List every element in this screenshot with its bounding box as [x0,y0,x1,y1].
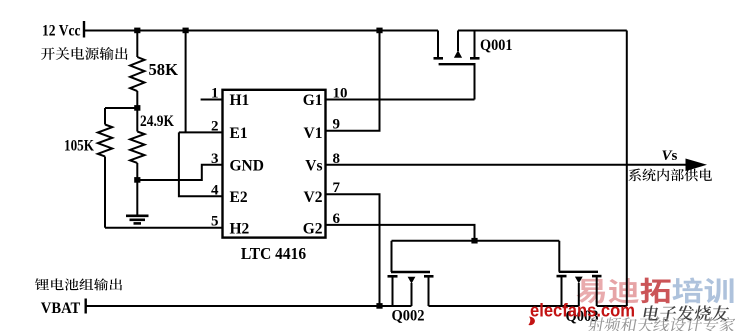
svg-text:1: 1 [211,86,219,102]
wire 12Vcc top rail [84,30,438,32]
svg-text:2: 2 [211,118,219,134]
wire pin1 H1 stub [201,99,223,101]
ground [126,180,149,223]
watermark 电子发烧友 [643,305,730,321]
svg-text:12 Vcc: 12 Vcc [42,23,81,40]
wire node A to 105K top [105,107,137,109]
transistor Q1 (Q001 P-MOSFET) [434,31,480,65]
wire Q002 drain to Q003 [429,305,579,307]
wire E2: tied to E1, down to pin4 [179,132,223,196]
watermark red mark [528,317,535,326]
wire Vs vertical (Q001 drain to battery switch output) [626,31,628,307]
svg-text:G1: G1 [303,92,323,109]
junction on rail at V1 drop [376,28,382,34]
svg-text:E1: E1 [230,125,248,142]
svg-text:V2: V2 [304,189,323,206]
svg-text:58K: 58K [149,60,179,79]
junction on rail at E1 drop [183,28,189,34]
watermark 射频和天线设计专家 [587,317,735,331]
svg-text:105K: 105K [64,137,94,154]
wire E1: rail to pin2 [185,31,187,133]
svg-text:V1: V1 [304,125,323,142]
svg-text:G2: G2 [303,220,323,237]
junction dot G2 on gate rail [471,238,477,244]
wire Vs pin8 output line [326,164,697,166]
wire H2 rail: 105K bottom to pin5 [105,227,223,229]
junction on rail at 58K [134,28,140,34]
wire Q003 drain to Vs vertical [597,305,627,307]
op-amp U1 LTC4416 body [223,90,326,238]
node A junction dot [134,105,140,111]
svg-text:VBAT: VBAT [41,300,81,317]
resistor R1 58K [130,31,144,109]
svg-text:4: 4 [211,182,219,198]
svg-text:Q001: Q001 [480,37,513,54]
svg-text:GND: GND [230,157,264,174]
label: system internal supply (系统内部供电) [629,168,712,181]
Vs output arrowhead [686,159,708,172]
wire G1 pin10 to Q001 gate [326,99,475,101]
svg-text:3: 3 [211,151,219,167]
wire V1 pin9 to rail [326,31,380,131]
wire VBAT rail [86,305,412,307]
svg-text:Vs: Vs [305,157,322,174]
svg-text:H1: H1 [230,92,250,109]
svg-text:LTC 4416: LTC 4416 [241,244,306,263]
wire Q001 gate drop [474,64,476,99]
wire node B to pin3 GND (jog) [137,165,222,180]
wire Q001 drain rail [458,30,627,32]
junction dot V2 on VBAT rail [376,303,382,309]
resistor R3 105K [98,108,112,228]
label: lithium battery pack output (锂电池组输出) [35,278,122,290]
resistor R2 24.9K [130,108,144,180]
svg-text:elecfans.com: elecfans.com [530,300,635,321]
svg-text:5: 5 [211,214,219,230]
svg-text:24.9K: 24.9K [140,113,174,130]
transistor Q2 (Q002) [388,241,434,306]
terminal tick 12Vcc [83,21,85,38]
terminal tick VBAT [84,299,86,314]
wire G2 pin6 to gate rail [326,225,475,241]
svg-text:H2: H2 [230,220,250,237]
svg-text:Vs: Vs [662,148,678,164]
wire gate rail Q002-Q003 [392,240,560,242]
svg-text:Q002: Q002 [392,308,425,325]
node B junction dot [134,177,140,183]
transistor Q3 (Q003) [557,241,602,306]
label: switching supply output (开关电源输出) [41,47,128,60]
wire V2 pin7 down to VBAT [326,194,380,306]
wire pin2 E1 horizontal [179,131,223,133]
watermark logo 易迪拓培训 (behind circuit) [577,278,734,304]
svg-text:E2: E2 [230,189,248,206]
